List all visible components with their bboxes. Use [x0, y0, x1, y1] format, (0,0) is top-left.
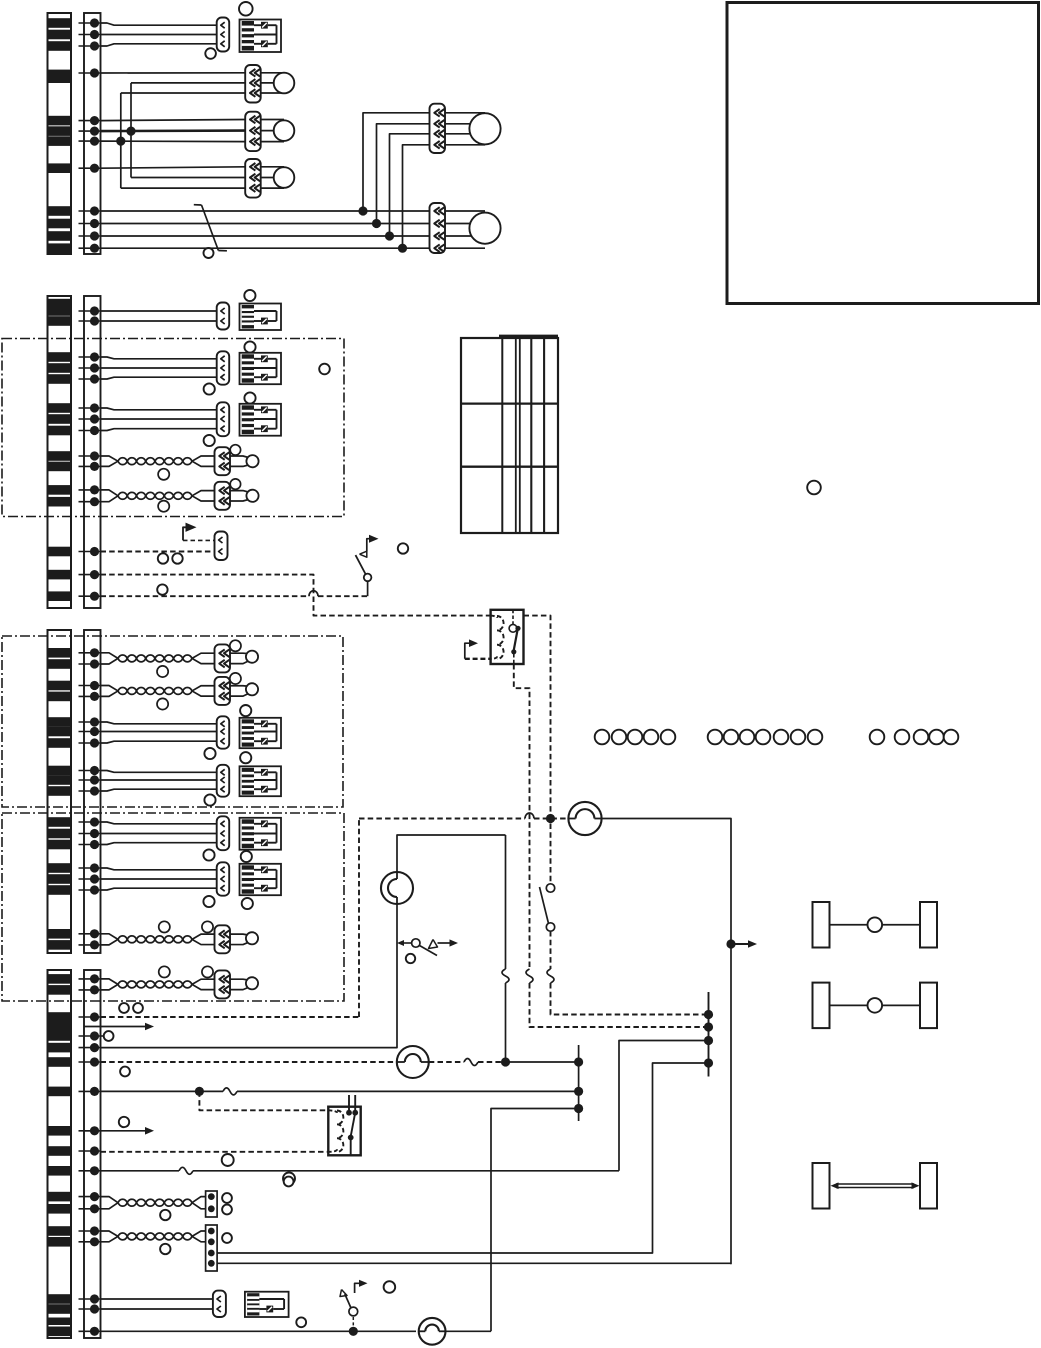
- twisted-pair marker lamp B5: [101, 921, 259, 953]
- lamp unit U6 with connector: [101, 752, 282, 806]
- arrow symbol at relay K1 coil: [465, 639, 491, 658]
- rear lamp cluster E2: [445, 211, 501, 248]
- wire rail to L2 pin3: [101, 140, 246, 143]
- interior lamp unit U1: [240, 20, 282, 53]
- dashed wire relay K1 output right: [524, 616, 551, 884]
- connector for lamp L2: [245, 112, 261, 151]
- connector X7 (2-pin): [215, 532, 228, 561]
- trailer connector X2 (4-pin): [430, 104, 446, 153]
- circle at slash: [204, 248, 214, 258]
- terminal rail section 3: [79, 630, 101, 953]
- vertical wire to junction with squiggle: [502, 835, 509, 1062]
- harness bar section 2: [48, 296, 72, 608]
- axle symbol A3 rigid: [813, 1163, 938, 1209]
- dashed wire rail to lamp E5: [101, 1061, 397, 1063]
- arrow stub row 1: [84, 1023, 154, 1031]
- switch S3 with arrow: [397, 939, 458, 956]
- trailer feed bus wires: [101, 211, 430, 248]
- wires to interior lamp unit U9: [101, 1298, 213, 1300]
- circle in box A: [319, 364, 330, 375]
- relay K2: [328, 1095, 360, 1155]
- riser wires to upper trailer connector: [358, 113, 429, 253]
- dashed wire lamp E5 to junction: [429, 1059, 506, 1066]
- lamp L1: [261, 72, 284, 74]
- cable slash marker across bus: [194, 205, 227, 251]
- circle below connector X1: [205, 48, 216, 59]
- wire B8 to horn bus: [217, 1262, 731, 1264]
- standalone circle right: [807, 481, 821, 495]
- dashed wire relay K1 contact to bus: [514, 664, 709, 1027]
- axle symbol A2 with differential: [813, 983, 938, 1029]
- interior lamp unit U9: [245, 1292, 289, 1317]
- dashed group box C: [2, 813, 344, 1001]
- solid wire horn to right bus: [602, 819, 731, 1265]
- terminal circles group 2: [708, 730, 823, 745]
- terminal circles group 3: [870, 730, 959, 745]
- bus segment x578: [574, 1045, 583, 1121]
- wire rail row with squiggle to bus: [101, 1088, 579, 1095]
- common wire rail to L2 pin2 (bold): [101, 129, 246, 132]
- pilot circle above U1: [239, 2, 253, 16]
- twisted pair B7 to socket: [101, 1191, 232, 1220]
- wire rail to switch lamp branch: [101, 835, 506, 1048]
- lamp L2: [261, 119, 284, 121]
- terminal rail section 4: [79, 970, 101, 1338]
- wire rail to interior lamp E6: [101, 1330, 417, 1332]
- switch S2 on dashed wire: [540, 884, 709, 1015]
- twisted-pair marker lamp B1: [101, 445, 259, 480]
- legend box (empty): [727, 3, 1039, 304]
- lamp unit U5 with connector: [101, 705, 282, 759]
- rear lamp cluster E1: [445, 113, 501, 145]
- circles below dashed wire: [158, 553, 168, 563]
- horn / flasher lamp E3: [568, 802, 601, 835]
- terminal rail section 1: [79, 13, 101, 254]
- twisted-pair marker lamp B2: [101, 479, 259, 512]
- pilot circle above U2: [244, 290, 255, 301]
- junction branch to relay K2: [195, 1087, 204, 1096]
- junction: [501, 1057, 510, 1066]
- wire rail to lamp group L3 pin1: [101, 167, 246, 168]
- twisted-pair marker lamp B3: [101, 640, 259, 677]
- switch S4 with arrow: [340, 1280, 368, 1336]
- connector X8 (2-pin): [213, 1291, 226, 1317]
- terminal circle row: [101, 1031, 114, 1041]
- direction arrow symbol: [183, 523, 215, 541]
- branch wire to L1/L3 pin2: [130, 83, 132, 178]
- circle right of switch S1: [398, 543, 408, 553]
- twisted pair B8 to socket: [101, 1225, 232, 1271]
- switch S1 with actuator arrow: [356, 535, 379, 596]
- junction at horn feed: [546, 814, 555, 823]
- circle right of switch S4: [384, 1281, 396, 1293]
- relay K1: [491, 610, 524, 664]
- dashed wire to relay K2 coil: [101, 1151, 329, 1153]
- interior lamp E6: [419, 1318, 446, 1345]
- circles near relay K2 row: [222, 1154, 234, 1166]
- circles above dashed horn wire: [119, 1003, 129, 1013]
- wire junction to bus x578: [506, 1061, 579, 1063]
- branch wire to L1/L3 pin3: [120, 93, 122, 188]
- lamp unit U8 with connector: [101, 862, 282, 909]
- junction: [116, 137, 125, 146]
- legend table: [461, 336, 558, 533]
- wire corner to bus row 1108: [491, 1109, 579, 1332]
- interior lamp unit U2: [240, 304, 282, 331]
- connector X4 (2-pin): [217, 303, 230, 330]
- dashed wire to connector X7: [101, 551, 215, 553]
- connector X1 (3-pin): [217, 18, 230, 52]
- terminal rail section 2: [79, 296, 101, 608]
- wire rail to lamp group L2 pin1: [101, 120, 246, 121]
- axle symbol A1 with differential: [813, 902, 938, 948]
- lamp E4 on branch: [381, 872, 413, 904]
- lamp L3: [261, 166, 284, 168]
- harness bar section 4: [48, 970, 72, 1338]
- dashed group box B: [2, 636, 343, 807]
- circle below E5 wire: [120, 1067, 130, 1077]
- twisted-pair marker lamp B4: [101, 673, 259, 710]
- wire rail to lamp group L1 pin1: [101, 72, 246, 74]
- circle below switch S3: [406, 954, 415, 963]
- long wire rail to bus x619: [101, 1041, 709, 1175]
- connector for lamp L1: [245, 65, 261, 103]
- wire from bus x652: [217, 1063, 709, 1253]
- lamp unit U7 with connector: [101, 816, 282, 862]
- circle under dashed wire: [157, 584, 167, 594]
- dashed wire from rail to horn: [101, 813, 569, 1017]
- distribution bus x708: [704, 992, 713, 1077]
- take-off arrow on right bus: [726, 939, 757, 948]
- connector for lamp L3: [245, 159, 261, 198]
- dashed wire row to switch S1: [101, 591, 368, 596]
- circle top right of B7: [284, 1177, 294, 1187]
- harness bar section 1: [48, 13, 72, 254]
- trailer connector X3 (4-pin): [430, 203, 446, 253]
- terminal circles group 1: [595, 730, 676, 745]
- wire lamp E6 to riser: [446, 1330, 492, 1332]
- lamp E5: [397, 1046, 429, 1078]
- harness bar section 3: [48, 630, 72, 953]
- circle below U9: [296, 1317, 306, 1327]
- lamp unit U4 with connector X6: [101, 392, 282, 446]
- twisted-pair marker lamp B6: [101, 966, 259, 998]
- dashed wire row to relay feed: [101, 575, 491, 616]
- circle above arrow row: [119, 1117, 129, 1127]
- lamp unit U3 with connector X5: [101, 341, 282, 394]
- wire group to interior lamp unit U1: [101, 23, 217, 46]
- wires to interior lamp unit U2: [101, 310, 217, 312]
- arrow stub row 2: [84, 1127, 154, 1135]
- junction on common wire: [126, 127, 135, 136]
- dashed group box A: [2, 339, 344, 517]
